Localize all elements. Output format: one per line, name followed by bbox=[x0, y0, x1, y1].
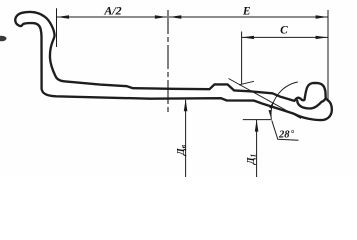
arc arrowhead bbox=[269, 102, 273, 109]
C extension line bbox=[241, 32, 243, 85]
horizontal reference line bbox=[243, 119, 272, 121]
D_1 arrowhead bbox=[255, 120, 259, 132]
A/2 extension line bbox=[56, 8, 58, 47]
C dimension line bbox=[242, 36, 328, 38]
D_B label bbox=[176, 144, 187, 156]
E dimension line bbox=[169, 16, 328, 18]
centerline bbox=[167, 10, 169, 112]
D_1 label bbox=[246, 154, 257, 166]
short thin tick line bbox=[239, 81, 254, 85]
E left arrowhead bbox=[169, 15, 181, 18]
flange curl free edge bbox=[297, 99, 325, 108]
A/2 right arrowhead bbox=[155, 15, 167, 18]
svg-text:Д1: Д1 bbox=[246, 154, 257, 166]
C right arrowhead bbox=[316, 36, 328, 39]
svg-text:28°: 28° bbox=[278, 128, 295, 140]
D_B arrowhead bbox=[184, 99, 188, 111]
28 deg thin slope line bbox=[229, 79, 302, 119]
angle arc bbox=[271, 82, 298, 120]
D_B dimension line bbox=[185, 100, 187, 177]
svg-text:Дв: Дв bbox=[176, 144, 187, 156]
scan artifact at left edge bbox=[0, 36, 7, 42]
E right arrowhead bbox=[316, 15, 328, 18]
arc bottom arrowhead bbox=[269, 110, 272, 120]
A/2 left arrowhead bbox=[57, 15, 69, 18]
rim profile outer shell bbox=[15, 12, 332, 120]
A/2 dimension line bbox=[57, 16, 168, 18]
28 deg leader line bbox=[272, 121, 299, 141]
svg-text:A/2: A/2 bbox=[103, 3, 121, 17]
C left arrowhead bbox=[242, 36, 254, 39]
svg-text:E: E bbox=[242, 5, 251, 17]
svg-text:C: C bbox=[280, 25, 288, 37]
right extension line bbox=[327, 10, 329, 102]
D_1 dimension line bbox=[256, 120, 258, 177]
